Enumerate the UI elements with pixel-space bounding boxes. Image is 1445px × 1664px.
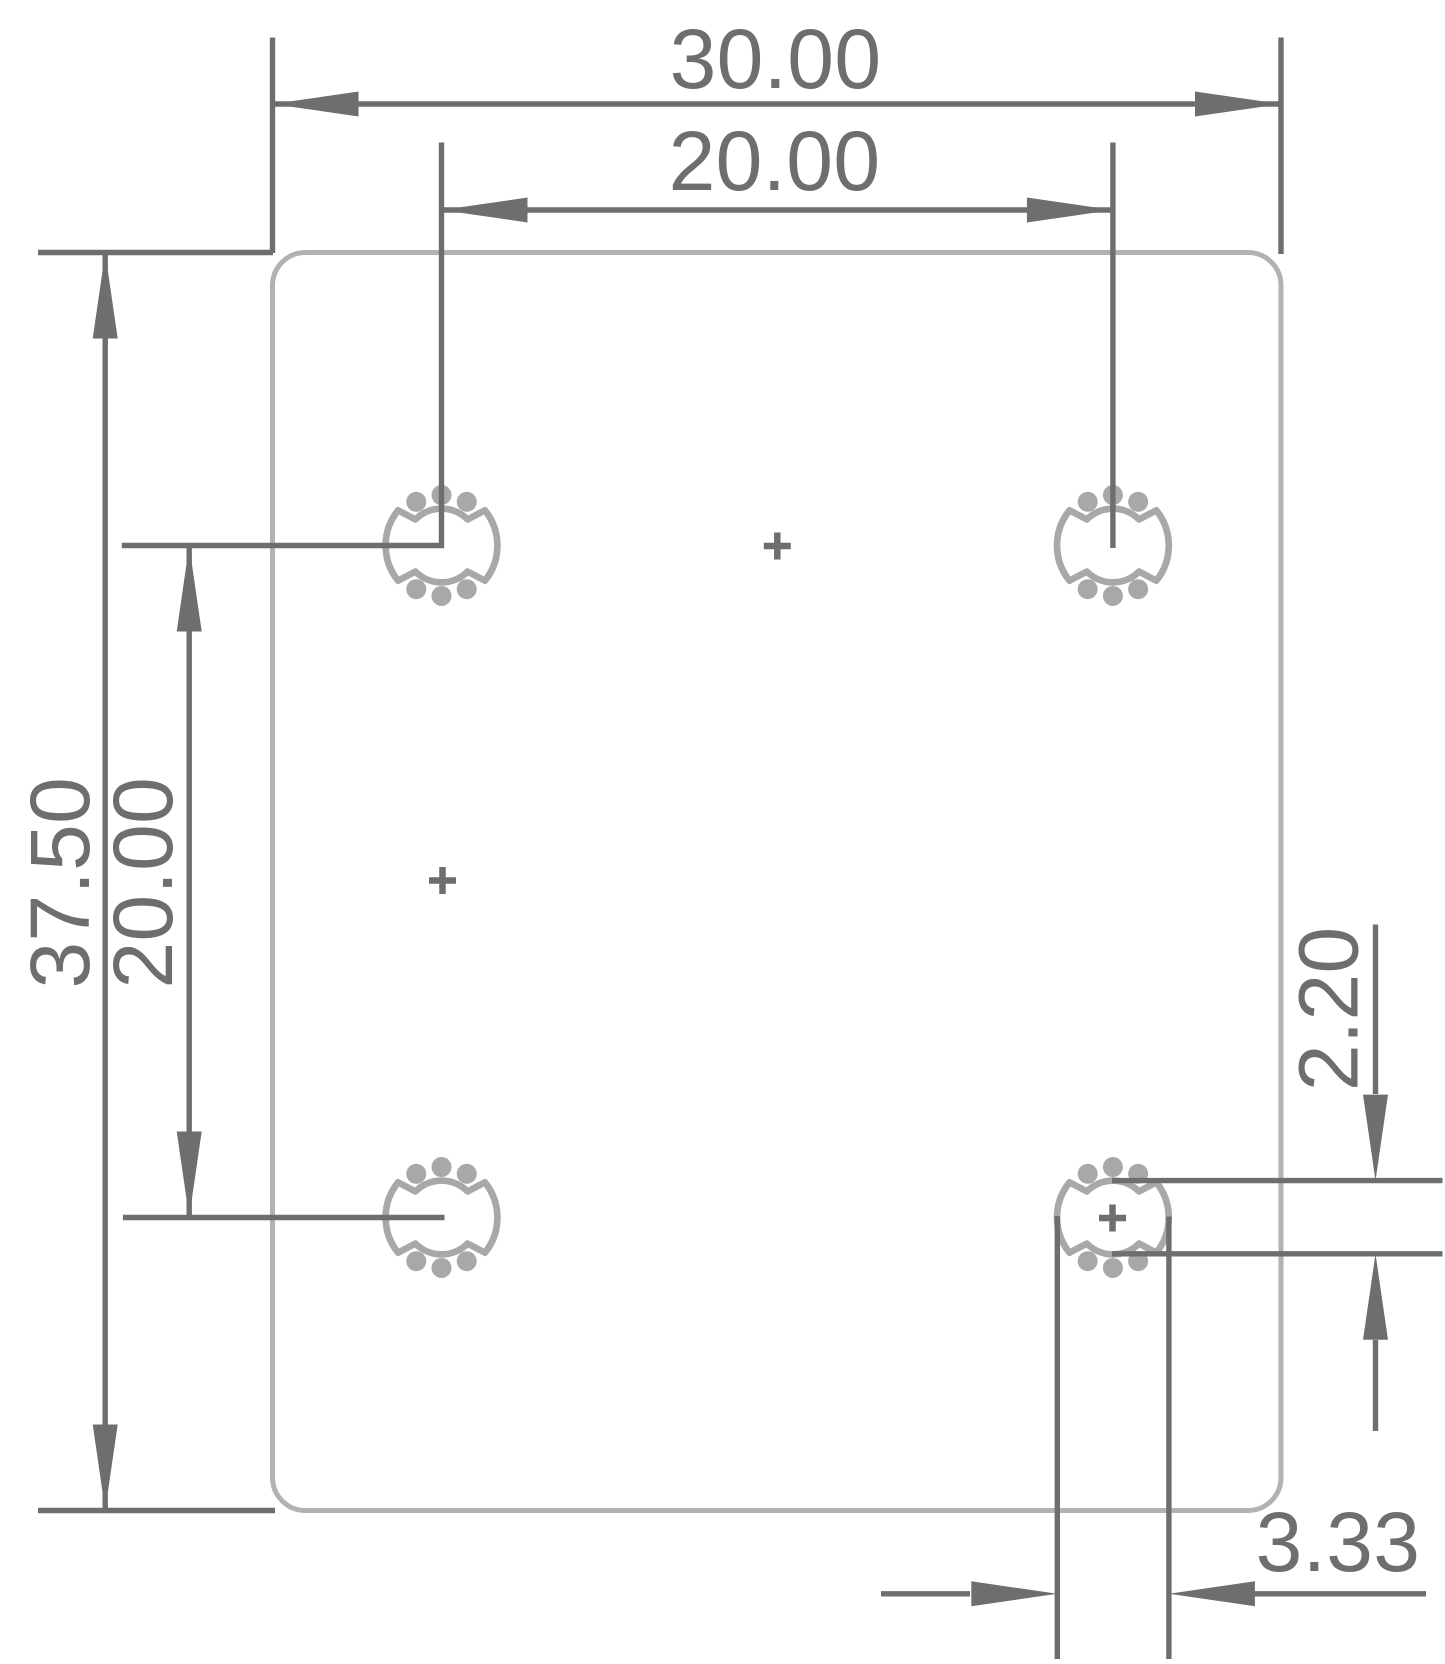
arrow 37.50 bottom	[93, 1425, 118, 1511]
cross marker between left holes	[429, 867, 456, 894]
svg-text:20.00: 20.00	[96, 777, 190, 989]
extension line 20.00-top left	[439, 143, 444, 549]
arrow 20.00-top left	[442, 198, 528, 223]
arrow 3.33 right	[1169, 1581, 1255, 1606]
hole BR	[1057, 1157, 1169, 1278]
arrow 20.00-left top	[177, 546, 202, 632]
svg-text:37.50: 37.50	[13, 777, 107, 989]
dimension leader 2.20 upper tail	[1373, 925, 1378, 1095]
extension line 30.00 right	[1278, 38, 1283, 255]
extension line 3.33 right	[1166, 1217, 1171, 1660]
arrow 30.00 left	[273, 92, 359, 117]
dimension line 20.00 left	[186, 546, 191, 1218]
extension line 20.00-left upper (through hole TL)	[122, 543, 444, 548]
arrow 37.50 top	[93, 253, 118, 339]
svg-text:2.20: 2.20	[1281, 926, 1375, 1091]
extension line 30.00 left	[270, 38, 275, 254]
arrow 2.20 upper	[1363, 1095, 1388, 1181]
dimension line 37.50	[102, 253, 107, 1511]
arrow 20.00-top right	[1027, 198, 1113, 223]
arrow 3.33 left	[971, 1581, 1057, 1606]
extension line 2.20 upper	[1112, 1178, 1443, 1183]
plate outline	[273, 253, 1282, 1511]
cross marker at hole BR center	[1099, 1205, 1126, 1232]
extension line 20.00-left lower (through hole BL)	[123, 1215, 445, 1220]
svg-text:30.00: 30.00	[670, 12, 882, 106]
arrow 2.20 lower	[1363, 1254, 1388, 1340]
hole TR	[1057, 485, 1169, 606]
arrow 20.00-left bottom	[177, 1132, 202, 1218]
extension line 20.00-top right	[1110, 143, 1115, 549]
hole BL	[386, 1157, 498, 1278]
dimension leader 2.20 lower tail	[1373, 1340, 1378, 1431]
hole TL	[386, 485, 498, 606]
svg-text:3.33: 3.33	[1256, 1495, 1421, 1589]
dimension line 20.00 top	[442, 207, 1113, 212]
dimension line 30.00	[273, 101, 1282, 106]
arrow 30.00 right	[1195, 92, 1281, 117]
svg-text:20.00: 20.00	[669, 114, 881, 208]
extension line 37.50 bottom	[38, 1508, 275, 1513]
cross marker between top holes	[764, 533, 791, 560]
dimension leader 3.33 left tail	[881, 1591, 970, 1596]
dimension leader 3.33 right tail	[1253, 1591, 1426, 1596]
extension line 2.20 lower	[1112, 1251, 1443, 1256]
extension line 37.50 top	[38, 250, 273, 255]
extension line 3.33 left	[1055, 1216, 1060, 1659]
